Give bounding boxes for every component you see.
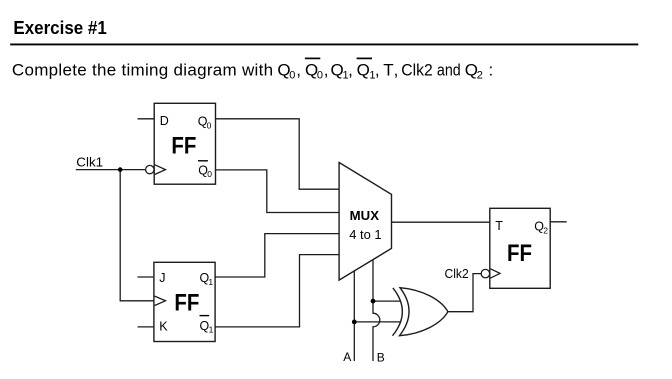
svg-text:1: 1 [208, 277, 213, 287]
svg-text:T: T [495, 219, 503, 233]
svg-text:2: 2 [477, 70, 483, 82]
svg-text:Exercise #1: Exercise #1 [13, 18, 106, 38]
svg-text:,: , [324, 60, 329, 79]
svg-text:2: 2 [543, 225, 548, 235]
svg-text:FF: FF [171, 133, 196, 160]
svg-text:and: and [437, 60, 461, 79]
svg-text:FF: FF [507, 240, 532, 267]
svg-text:1: 1 [209, 325, 214, 335]
svg-text:Clk2: Clk2 [445, 266, 469, 281]
svg-text:0: 0 [289, 70, 295, 82]
svg-text:Q: Q [357, 60, 370, 79]
svg-text:,: , [348, 60, 353, 79]
svg-text:J: J [159, 271, 165, 285]
svg-text:,: , [296, 60, 301, 79]
svg-text:4 to 1: 4 to 1 [349, 227, 381, 242]
svg-text:T: T [383, 60, 393, 79]
svg-text:0: 0 [207, 120, 212, 130]
svg-text:D: D [160, 114, 169, 128]
svg-text:,: , [394, 60, 399, 79]
svg-text:Clk1: Clk1 [76, 155, 103, 170]
svg-text:K: K [159, 319, 168, 333]
svg-text::: : [489, 60, 494, 79]
svg-text:FF: FF [174, 289, 199, 316]
svg-text:0: 0 [317, 70, 323, 82]
svg-text:,: , [375, 60, 380, 79]
svg-text:B: B [377, 350, 385, 364]
svg-text:A: A [343, 350, 351, 364]
svg-text:Clk2: Clk2 [401, 60, 432, 79]
svg-text:Complete the timing diagram wi: Complete the timing diagram with [12, 60, 273, 79]
svg-text:0: 0 [207, 169, 212, 179]
svg-text:MUX: MUX [350, 208, 380, 223]
